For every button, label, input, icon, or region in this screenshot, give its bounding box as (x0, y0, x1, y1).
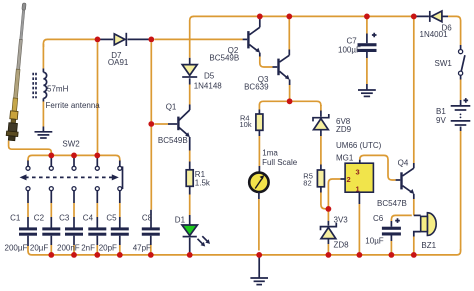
wire node to BZ1 top terminal (414, 214, 421, 216)
label BZ1 (421, 241, 436, 250)
wire rail to D6 cathode (411, 15, 429, 17)
capacitor C1 200uF (19, 227, 37, 246)
svg-text:D1: D1 (175, 215, 186, 224)
wire C7 top lead (366, 19, 368, 43)
svg-text:82: 82 (303, 179, 311, 188)
label D1 (175, 215, 186, 224)
wire SW1 to battery (460, 75, 462, 105)
capacitor C3 200nF (65, 227, 83, 252)
SW2 bottom drops to capacitors (28, 191, 120, 228)
label 57mH (47, 85, 69, 94)
svg-text:9V: 9V (436, 116, 446, 125)
wire Q1 emitter to R1 (189, 137, 191, 170)
wire C6 bottom to rail (390, 236, 392, 253)
transistor Q3 BC639 (277, 55, 289, 80)
C7 plus sign (372, 33, 377, 38)
svg-text:100µF: 100µF (338, 45, 361, 54)
svg-text:3: 3 (356, 167, 360, 176)
svg-text:Q4: Q4 (398, 158, 409, 167)
label C2 (34, 214, 45, 223)
svg-text:1ma: 1ma (262, 148, 278, 157)
label UM66 (UTC) (336, 141, 382, 150)
svg-text:C3: C3 (59, 214, 70, 223)
label SW2 (62, 140, 80, 149)
wire BZ1 bottom terminal to rail (414, 232, 421, 253)
svg-text:10µF: 10µF (365, 236, 384, 245)
switch SW1 (459, 50, 465, 76)
svg-text:D5: D5 (204, 71, 215, 80)
svg-text:1N4148: 1N4148 (194, 82, 223, 91)
svg-text:SW2: SW2 (62, 140, 80, 149)
buzzer BZ1 speaker (421, 213, 436, 236)
capacitor C7 100uF (358, 43, 377, 52)
battery plus sign (464, 98, 469, 103)
wire signal row left (antenna node to D7 anode) with corner to coil (43, 39, 95, 47)
svg-text:ZD8: ZD8 (334, 240, 350, 249)
svg-text:BZ1: BZ1 (421, 241, 436, 250)
svg-text:BC549B: BC549B (209, 54, 239, 63)
svg-text:1: 1 (356, 184, 360, 193)
svg-text:C1: C1 (10, 214, 21, 223)
wire Q4 emitter down to speaker node (413, 194, 415, 216)
pin number 2 (347, 175, 351, 184)
ground below coil (35, 132, 53, 138)
svg-text:Full Scale: Full Scale (262, 158, 298, 167)
IC U1 UM66 box (345, 163, 373, 192)
ground below meter (250, 255, 268, 285)
wire D6 anode to right rail corner (442, 16, 461, 45)
wire ZD9 to R5 (320, 130, 322, 170)
wire R4 top lead (258, 105, 260, 115)
C6 plus sign (395, 218, 400, 223)
LED D1 green (182, 225, 197, 252)
wire top rail corner + D5 column top (190, 16, 194, 64)
value 200uF (5, 244, 28, 253)
svg-text:3V3: 3V3 (334, 215, 349, 224)
wire D6 junction down to Q4 collector (413, 19, 415, 168)
svg-text:1N4001: 1N4001 (420, 30, 449, 39)
label R5 / 82 (303, 171, 313, 187)
label C5 (106, 214, 117, 223)
diode D5 1N4148 (182, 65, 197, 77)
wire Q3 emitter to junction row (289, 80, 291, 100)
meter M1 1ma full scale (249, 173, 268, 192)
UM66 pin1 stub to bottom rail (358, 192, 360, 252)
wire ZD9 top lead (320, 105, 322, 117)
SW2 bottom contact circles (26, 187, 122, 191)
label 3V3 / ZD8 (334, 215, 350, 249)
svg-text:200µF: 200µF (5, 244, 28, 253)
label C4 (83, 214, 94, 223)
capacitor C2 20uF (42, 227, 60, 252)
svg-text:MG1: MG1 (336, 153, 354, 162)
ferrite core dashes (33, 73, 36, 99)
resistor R5 82 (317, 170, 324, 187)
label Q1 / BC549B (158, 103, 188, 146)
label D7 / OA91 (108, 51, 129, 67)
transistor Q1 BC549B (177, 110, 190, 137)
label MG1 (336, 153, 354, 162)
svg-text:OA91: OA91 (108, 58, 129, 67)
svg-text:SW1: SW1 (435, 59, 453, 68)
label Q4 / BC547B (377, 158, 409, 208)
svg-text:C7: C7 (347, 36, 358, 45)
wire Q3 collector to top rail (288, 19, 290, 56)
svg-text:C8: C8 (142, 214, 153, 223)
wire meter row y=101.3 (259, 101, 321, 106)
svg-text:47pF: 47pF (133, 244, 151, 253)
label B1 / 9V (436, 107, 446, 125)
SW2 wiper dashed travel line with arrows (20, 174, 119, 180)
antenna AE1 telescopic (6, 3, 30, 141)
svg-text:C2: C2 (34, 214, 45, 223)
transistor Q2 BC549B (247, 27, 260, 53)
value 20uF (30, 244, 49, 253)
inductor L1 57mH ferrite antenna coil (43, 44, 46, 131)
label C6 / 10uF (365, 214, 384, 245)
value 47pF (133, 244, 151, 253)
SW2 selected blade at C5 position (122, 166, 124, 189)
capacitor C5 20pF (111, 227, 129, 252)
svg-text:2: 2 (347, 175, 351, 184)
wire signal row right (to Q2 base) (154, 38, 247, 40)
wire D5 cathode to Q1 collector (189, 78, 191, 110)
pin number 1 (356, 184, 360, 193)
SW2 top contact stubs (28, 158, 120, 167)
wire antenna feed to SW2 rail (9, 141, 52, 153)
label 1ma / Full Scale (262, 148, 298, 167)
wire battery to bottom rail (460, 127, 462, 251)
svg-text:20µF: 20µF (30, 244, 49, 253)
svg-text:B1: B1 (436, 107, 446, 116)
svg-text:ZD9: ZD9 (336, 125, 352, 134)
label Q2 / BC549B (209, 46, 239, 63)
value 20pF (99, 244, 117, 253)
wire riser antenna node x=97.5 (97, 42, 99, 152)
svg-text:2nF: 2nF (81, 244, 95, 253)
svg-text:200nF: 200nF (57, 244, 80, 253)
svg-text:C5: C5 (106, 214, 117, 223)
wire Q2 collector to top rail (259, 19, 261, 28)
svg-text:BC547B: BC547B (377, 199, 407, 208)
capacitor C8 47pF (142, 227, 160, 252)
wire R5 bottom to node (321, 187, 327, 209)
svg-text:20pF: 20pF (99, 244, 117, 253)
label R1 / 1.5k (195, 170, 211, 188)
LED D1 light arrows (198, 236, 211, 246)
wire meter to ground rail (258, 192, 260, 250)
resistor R1 1.5k (186, 170, 193, 187)
battery B1 9V (451, 106, 471, 125)
value 2nF (81, 244, 95, 253)
wire Q1 base stub (154, 123, 177, 125)
pin number 3 (356, 167, 360, 176)
svg-text:Q1: Q1 (166, 103, 177, 112)
wire Q2 emitter to Q3 base (260, 53, 278, 67)
value 200nF (57, 244, 80, 253)
svg-text:1.5k: 1.5k (195, 178, 211, 187)
label SW1 (435, 59, 453, 68)
wire UM66 pin2 to node (328, 179, 345, 207)
wire bottom ground rail (28, 246, 461, 255)
label C1 (10, 214, 21, 223)
svg-text:Ferrite antenna: Ferrite antenna (46, 101, 101, 110)
label 6V8 / ZD9 (336, 117, 352, 134)
label D6 / 1N4001 (420, 23, 453, 39)
svg-text:57mH: 57mH (47, 85, 69, 94)
label C8 (142, 214, 153, 223)
UM66 pin3 stub and route to Q4 base (360, 155, 401, 180)
label C3 (59, 214, 70, 223)
wire ZD8 to bottom rail (327, 239, 329, 253)
capacitor C6 10uF (382, 227, 401, 236)
wire C7 to ground (366, 52, 368, 90)
wire R1 to D1 (189, 186, 191, 225)
wire SW2 top rail (28, 155, 120, 161)
diode D7 OA91 (114, 33, 126, 46)
wire node to ZD8 (327, 212, 329, 226)
wire D7 cathode stub (128, 38, 149, 40)
wire D7 anode stub (98, 38, 114, 40)
zener diode ZD8 3V3 (321, 223, 337, 239)
wire riser detector node x=151.3 (D7 cathode to Q1 base to C8) (150, 42, 152, 227)
ground below C7 (358, 90, 376, 96)
SW2 top contact circles (26, 166, 122, 170)
svg-text:BC639: BC639 (244, 83, 269, 92)
resistor R4 10k (256, 114, 263, 130)
wire node left to C6 top (391, 215, 411, 226)
transistor Q4 BC547B (400, 168, 414, 194)
svg-text:UM66 (UTC): UM66 (UTC) (336, 141, 382, 150)
label C7 / 100uF (338, 36, 361, 54)
svg-text:C6: C6 (373, 214, 384, 223)
label Ferrite antenna (46, 101, 101, 110)
zener diode ZD9 6V8 (313, 114, 329, 130)
wire R4 to meter (258, 130, 260, 171)
diode D6 1N4001 (430, 11, 442, 22)
svg-text:10k: 10k (240, 120, 252, 129)
wire SW1 top stub (460, 45, 462, 49)
capacitor C4 2nF (88, 227, 106, 252)
svg-text:C4: C4 (83, 214, 94, 223)
label D5 / 1N4148 (194, 71, 223, 90)
label Q3 / BC639 (244, 75, 269, 92)
label R4 / 10k (240, 113, 252, 129)
svg-text:BC549B: BC549B (158, 136, 188, 145)
wire top supply rail (193, 15, 411, 17)
